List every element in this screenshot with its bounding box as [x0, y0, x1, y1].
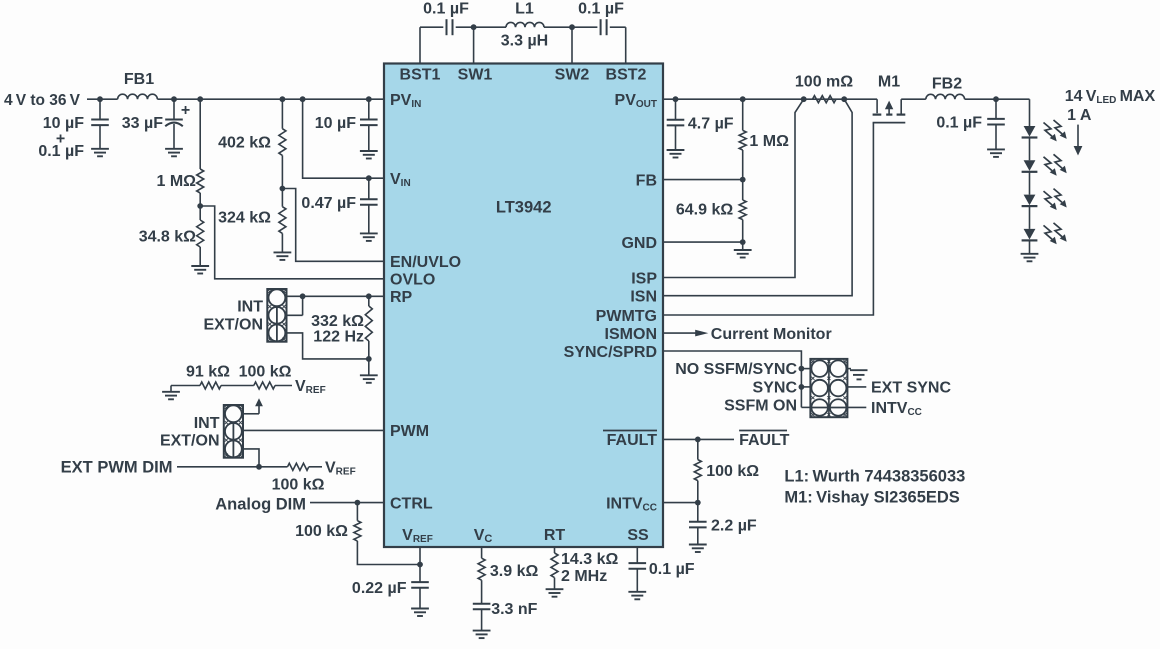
wire 3.3nF gnd — [481, 610, 483, 631]
svg-text:1 A: 1 A — [1067, 107, 1092, 124]
wire PWM jumper bottom — [243, 449, 259, 467]
ground 0.22uF — [411, 609, 429, 617]
node EXT PWM DIM junction — [256, 464, 262, 470]
wire VREF pin drop — [419, 547, 421, 582]
svg-text:EXT/ON: EXT/ON — [203, 317, 263, 334]
wire PWM pin — [243, 429, 384, 431]
pin VIN label — [390, 171, 411, 189]
wire 33uF to gnd — [173, 124, 175, 149]
node INTVCC junction — [695, 500, 701, 506]
ground 0.47uF — [360, 233, 378, 241]
capacitor 0.1uF BST2 — [601, 19, 607, 35]
svg-text:PWMTG: PWMTG — [596, 308, 657, 325]
wire ISN kelvin — [663, 99, 852, 296]
svg-text:0.1 µF: 0.1 µF — [578, 1, 624, 18]
IC name label LT3942 — [496, 199, 552, 217]
ground 14.3k — [546, 589, 564, 597]
node FAULT junction — [695, 437, 701, 443]
wire BST2 riser — [625, 27, 627, 63]
label INT RP jumper — [237, 299, 263, 316]
pin ISP label — [631, 271, 657, 288]
resistor 402k — [279, 129, 286, 156]
LED D3 light arrows — [1044, 189, 1067, 210]
wire LED D2 to D3 — [1029, 172, 1031, 195]
wire 34.8k to gnd — [199, 247, 201, 266]
wire 1M drop — [199, 99, 201, 169]
resistor 3.9k — [478, 558, 485, 580]
wire LED string top — [1029, 99, 1031, 126]
label 402k — [218, 135, 271, 152]
label FB2 — [932, 76, 962, 93]
wire 64.9k top — [742, 180, 744, 200]
ground 332k — [360, 359, 378, 383]
svg-text:CTRL: CTRL — [390, 496, 433, 513]
net label VREF pwm — [325, 459, 356, 477]
label EXT/ON RP jumper — [203, 317, 263, 334]
label plus input — [56, 131, 65, 148]
svg-text:ISN: ISN — [630, 289, 657, 306]
node 402k-324k junction — [280, 186, 286, 192]
pin GND label — [621, 235, 657, 252]
node sense right junction — [841, 96, 847, 102]
svg-text:LT3942: LT3942 — [496, 199, 552, 217]
node RP jumper junction — [300, 293, 306, 299]
wire 100k to VREF label — [275, 385, 292, 387]
label 0.1uF SS — [649, 561, 695, 578]
svg-text:SSFM ON: SSFM ON — [724, 397, 797, 414]
wire SS pin drop — [636, 547, 638, 563]
svg-text:34.8 kΩ: 34.8 kΩ — [139, 229, 196, 246]
capacitor 0.1uF BST1 — [447, 19, 453, 35]
label FB1 — [124, 71, 154, 88]
wire RP to jumper — [287, 295, 385, 297]
label 14.3k — [561, 551, 618, 568]
svg-text:BST2: BST2 — [606, 67, 647, 84]
wire 0.1uF out gnd — [995, 125, 997, 150]
svg-text:332 kΩ: 332 kΩ — [311, 313, 364, 330]
svg-text:0.22 µF: 0.22 µF — [352, 580, 407, 597]
resistor 332k — [365, 306, 372, 341]
wire node to OVLO corner — [200, 206, 384, 279]
wire ISP kelvin — [663, 99, 804, 277]
jumper block PWM INT/EXT-ON — [224, 405, 243, 458]
wire BST1 riser — [419, 27, 421, 63]
wire 34.8k top — [199, 206, 201, 220]
node 33uF junction — [171, 96, 177, 102]
label 14V LED MAX — [1065, 88, 1156, 106]
capacitor 0.22uF — [411, 582, 429, 588]
wire PWMTG to gate — [663, 123, 873, 315]
label 0.22uF — [352, 580, 407, 597]
wire gnd stub sync — [847, 368, 851, 370]
pin FAULT label with overline — [603, 431, 657, 450]
wire VIN riser — [303, 99, 384, 178]
wire 100k ctrl to vref node — [357, 541, 420, 565]
net label Current Monitor — [711, 326, 832, 343]
svg-text:PWM: PWM — [390, 423, 429, 440]
arrow LED current — [1074, 125, 1083, 156]
svg-text:2.2 µF: 2.2 µF — [711, 518, 757, 535]
transistor M1 body arrow — [885, 101, 893, 115]
transistor M1 drain wire — [901, 99, 926, 114]
label 100k fault — [706, 463, 759, 480]
pin RP label — [390, 289, 413, 306]
capacitor 2.2uF — [689, 522, 707, 528]
ground SYNC jumper — [850, 370, 868, 379]
label 0.1uF out — [936, 115, 982, 132]
label L1 — [515, 1, 534, 18]
wire SSFM ON stub — [801, 406, 810, 408]
svg-text:324 kΩ: 324 kΩ — [218, 210, 271, 227]
label SYNC — [753, 379, 798, 396]
ground 3.3nF — [473, 631, 491, 639]
svg-text:L1: L1 — [515, 1, 534, 18]
svg-text:3.9 kΩ: 3.9 kΩ — [490, 563, 539, 580]
net label 4V to 36V input — [4, 92, 81, 109]
svg-text:100 kΩ: 100 kΩ — [295, 523, 348, 540]
svg-text:EN/UVLO: EN/UVLO — [390, 254, 461, 271]
pin PVIN label — [390, 92, 421, 110]
wire SW1 riser — [473, 27, 475, 63]
wire LED D3 to D4 — [1029, 206, 1031, 229]
transistor M1 gate bar — [873, 122, 906, 124]
label plus 33uF — [181, 102, 190, 119]
node 4.7uF junction — [673, 96, 679, 102]
svg-text:402 kΩ: 402 kΩ — [218, 135, 271, 152]
label 1A — [1067, 107, 1092, 124]
ground 0.1uF out — [987, 149, 1005, 157]
net label VREF top — [295, 378, 326, 396]
svg-text:Analog DIM: Analog DIM — [215, 496, 306, 514]
pin OVLO label — [390, 272, 435, 289]
pin VREF label — [402, 527, 433, 545]
label NO SSFM/SYNC — [675, 361, 797, 378]
wire 100k ctrl top — [356, 503, 358, 521]
LED D2 — [1022, 160, 1038, 172]
ground 34.8k — [191, 266, 209, 274]
svg-text:122 Hz: 122 Hz — [313, 329, 364, 346]
ground SS cap — [628, 592, 646, 600]
svg-text:SW1: SW1 — [458, 67, 493, 84]
label 122Hz — [313, 329, 364, 346]
wire 324k top — [281, 189, 283, 207]
node NO SSFM junction — [799, 366, 805, 372]
label INT PWM jumper — [194, 415, 220, 432]
label 4.7uF — [688, 116, 734, 133]
wire 10uF drop — [99, 99, 101, 119]
svg-text:2 MHz: 2 MHz — [561, 568, 607, 585]
label 324k — [218, 210, 271, 227]
label 0.1uF BST1 — [423, 1, 469, 18]
pin BST2 label — [606, 67, 647, 84]
label 1M out — [749, 133, 789, 150]
svg-text:FB2: FB2 — [932, 76, 962, 93]
pin ISN label — [630, 289, 657, 306]
LED D4 — [1022, 229, 1038, 241]
node CTRL junction — [355, 500, 361, 506]
op IC U1 LT3942 body — [384, 64, 663, 548]
label 1M input — [157, 173, 197, 190]
wire FB pin — [663, 179, 743, 181]
node 332k top junction — [366, 293, 372, 299]
wire 402k to node — [281, 155, 283, 188]
LED D4 light arrows — [1044, 223, 1067, 244]
pin PVOUT label — [615, 92, 657, 110]
wire 91k to 100k — [221, 385, 254, 387]
resistor 1M input divider — [197, 169, 204, 193]
LED D2 light arrows — [1044, 154, 1067, 175]
wire 4.7uF gnd — [675, 126, 677, 150]
wire 10uF pvin drop — [368, 99, 370, 119]
node 1M out junction — [740, 96, 746, 102]
resistor 324k — [279, 207, 286, 234]
wire 332k top lead — [368, 296, 370, 306]
svg-text:0.47 µF: 0.47 µF — [301, 195, 356, 212]
node SW1 junction — [471, 24, 477, 30]
wire SYNC/SPRD route — [663, 351, 801, 407]
ground 91k — [162, 386, 180, 400]
svg-text:33 µF: 33 µF — [122, 115, 163, 132]
svg-text:14.3 kΩ: 14.3 kΩ — [561, 551, 618, 568]
wire RP jumper mid riser — [302, 296, 304, 315]
svg-text:10 µF: 10 µF — [43, 115, 84, 132]
wire 4.7uF drop — [675, 99, 677, 119]
wire EXT SYNC stub — [847, 386, 866, 388]
svg-text:SYNC: SYNC — [753, 379, 798, 396]
wire 14.3k gnd — [554, 578, 556, 590]
wire 10uF to gnd — [99, 125, 101, 148]
note M1 part number — [784, 488, 959, 506]
pin SW2 label — [555, 67, 590, 84]
node 1M junction — [197, 96, 203, 102]
pin EN/UVLO label — [390, 254, 461, 271]
resistor 1M out — [739, 130, 746, 150]
svg-text:FB: FB — [636, 172, 657, 189]
wire 100k fault bottom — [697, 481, 699, 503]
wire 402k top — [281, 99, 283, 129]
ground GND pin — [734, 242, 752, 257]
resistor 14.3k — [551, 553, 558, 578]
wire NO SSFM stub — [801, 368, 810, 370]
transistor M1 body bar — [886, 113, 892, 115]
svg-text:RP: RP — [390, 289, 413, 306]
wire 0.1uF out drop — [995, 99, 997, 118]
transistor M1 source wire — [876, 99, 878, 113]
label 0.1uF BST2 — [578, 1, 624, 18]
label 0.1uF input — [38, 143, 84, 160]
inductor L1 3.3uH — [506, 22, 544, 27]
wire 0.22uF gnd — [419, 588, 421, 609]
svg-text:FAULT: FAULT — [607, 432, 658, 449]
wire node to EN/UVLO — [282, 189, 384, 262]
svg-text:INT: INT — [237, 299, 263, 316]
pin INTVCC label — [606, 496, 657, 514]
transistor M1 drain bar — [897, 113, 906, 115]
label 91k — [186, 364, 230, 381]
label 3.3nF — [491, 601, 537, 618]
wire 2.2uF drop — [697, 503, 699, 522]
wire RP jumper mid pin — [287, 314, 303, 316]
svg-text:100 kΩ: 100 kΩ — [239, 364, 292, 381]
wire BST1 top to cap — [420, 26, 443, 28]
label 33uF — [122, 115, 163, 132]
arrow wiper up — [255, 398, 263, 414]
svg-text:GND: GND — [621, 235, 657, 252]
note L1 part number — [784, 467, 965, 485]
svg-text:4.7 µF: 4.7 µF — [688, 116, 734, 133]
svg-text:+: + — [181, 102, 190, 119]
resistor 91k — [200, 382, 221, 389]
wire 10uF pvin gnd — [368, 125, 370, 151]
label 2.2uF — [711, 518, 757, 535]
wire gnd to 91k — [171, 385, 200, 387]
svg-text:FAULT: FAULT — [739, 432, 790, 449]
ground 10uF PVIN — [360, 151, 378, 159]
ground 324k — [274, 252, 292, 260]
wire cap to SW1 node — [456, 26, 506, 28]
wire SYNC stub — [801, 386, 810, 388]
resistor 64.9k — [739, 200, 746, 220]
node FB junction — [740, 177, 746, 183]
wire 324k to gnd — [281, 233, 283, 252]
jumper block RP INT/EXT-ON — [267, 289, 286, 342]
svg-text:RT: RT — [544, 527, 566, 544]
wire INTVCC pin — [663, 502, 698, 504]
node sense left junction — [801, 96, 807, 102]
svg-text:EXT/ON: EXT/ON — [160, 433, 220, 450]
node VREF junction — [417, 562, 423, 568]
label SSFM ON — [724, 397, 797, 414]
label 100mohm — [795, 74, 853, 91]
label 100k pwm — [272, 477, 325, 494]
svg-text:64.9 kΩ: 64.9 kΩ — [676, 202, 733, 219]
wire FB2 to LED — [965, 98, 1030, 100]
wire SW2 riser — [571, 27, 573, 63]
pin SYNC/SPRD label — [564, 344, 657, 361]
net label FAULT out with overline — [739, 431, 790, 450]
resistor 100k fault — [694, 460, 701, 481]
svg-text:100 mΩ: 100 mΩ — [795, 74, 853, 91]
ground LED string — [1021, 254, 1039, 261]
svg-text:10 µF: 10 µF — [315, 115, 356, 132]
pin VC label — [474, 527, 493, 545]
wire rail FB1 to PVIN — [157, 98, 384, 100]
LED D1 light arrows — [1044, 120, 1067, 141]
ferrite bead FB1 — [118, 94, 158, 99]
svg-text:EXT SYNC: EXT SYNC — [871, 379, 951, 396]
wire ISMON — [663, 332, 696, 334]
svg-text:SW2: SW2 — [555, 67, 590, 84]
svg-text:ISMON: ISMON — [605, 326, 657, 343]
node 402k junction — [280, 96, 286, 102]
wire 100k fault top — [697, 439, 699, 459]
wire 1M out top — [742, 99, 744, 130]
wire RT pin drop — [554, 547, 556, 553]
pin SS label — [627, 527, 649, 544]
wire 3.9k to 3.3nF — [481, 580, 483, 603]
label 10uF input — [43, 115, 84, 132]
svg-text:0.1 µF: 0.1 µF — [936, 115, 982, 132]
svg-text:100 kΩ: 100 kΩ — [706, 463, 759, 480]
svg-text:OVLO: OVLO — [390, 272, 435, 289]
wire 0.47uF drop — [368, 178, 370, 199]
net label EXT PWM DIM — [61, 458, 173, 476]
pin PWM label — [390, 423, 429, 440]
wire Analog DIM to CTRL — [310, 502, 384, 504]
wire EXT PWM DIM — [177, 466, 288, 468]
ground 10uF input — [91, 149, 109, 157]
svg-text:100 kΩ: 100 kΩ — [272, 477, 325, 494]
wire 33uF drop — [173, 99, 175, 119]
wire LED string bottom — [1029, 240, 1031, 253]
ground 33uF — [165, 149, 183, 157]
resistor 100k vref top — [254, 382, 275, 389]
wire L1 to SW2 node — [544, 26, 597, 28]
wire 2.2uF gnd — [697, 528, 699, 545]
wire 0.47uF gnd — [368, 205, 370, 233]
label 332k — [311, 313, 364, 330]
wire LED D1 to D2 — [1029, 138, 1031, 161]
svg-text:M1: Vishay SI2365EDS: M1: Vishay SI2365EDS — [784, 488, 959, 506]
svg-text:1 MΩ: 1 MΩ — [749, 133, 789, 150]
capacitor 4.7uF out — [667, 120, 685, 126]
wire PWM jumper top to arrow — [243, 413, 259, 415]
svg-text:Current Monitor: Current Monitor — [711, 326, 832, 343]
net label Analog DIM — [215, 496, 306, 514]
svg-text:0.1 µF: 0.1 µF — [649, 561, 695, 578]
pin PWMTG label — [596, 308, 657, 325]
pin RT label — [544, 527, 566, 544]
wire VC pin drop — [481, 547, 483, 558]
LED D1 — [1022, 126, 1038, 138]
label 0.47uF — [301, 195, 356, 212]
svg-text:3.3 µH: 3.3 µH — [501, 33, 548, 50]
wire FAULT pin — [663, 438, 734, 440]
svg-text:0.1 µF: 0.1 µF — [423, 1, 469, 18]
wire 100k pwm to vref — [309, 466, 322, 468]
wire PVOUT rail — [663, 98, 877, 100]
ferrite bead FB2 — [926, 94, 965, 99]
svg-text:91 kΩ: 91 kΩ — [186, 364, 230, 381]
svg-text:L1: Wurth 74438356033: L1: Wurth 74438356033 — [784, 467, 965, 485]
wire GND pin — [663, 241, 743, 243]
node 0.47uF junction — [366, 175, 372, 181]
resistor 100mohm sense — [813, 96, 837, 103]
wire 332k bottom lead — [368, 341, 370, 359]
transistor M1 source bar — [873, 113, 882, 115]
resistor 100k ctrl — [354, 521, 361, 541]
node 10uF PVIN junction — [366, 96, 372, 102]
svg-text:SS: SS — [627, 527, 649, 544]
capacitor 10uF PVIN — [360, 120, 378, 126]
wire cap to BST2 top — [610, 26, 626, 28]
svg-text:SYNC/SPRD: SYNC/SPRD — [564, 344, 657, 361]
wire INTVCC stub — [847, 406, 866, 408]
ground 4.7uF — [667, 150, 685, 158]
net label EXT SYNC — [871, 379, 951, 396]
label 34.8k — [139, 229, 196, 246]
node GND junction — [740, 239, 746, 245]
svg-text:1 MΩ: 1 MΩ — [157, 173, 197, 190]
node VIN riser junction — [300, 96, 306, 102]
node divider mid — [197, 203, 203, 209]
pin ISMON label — [605, 326, 657, 343]
label 2MHz — [561, 568, 607, 585]
node 0.1uF out junction — [993, 96, 999, 102]
pin SW1 label — [458, 67, 493, 84]
label M1 — [878, 74, 900, 91]
wire SS cap gnd — [636, 569, 638, 592]
